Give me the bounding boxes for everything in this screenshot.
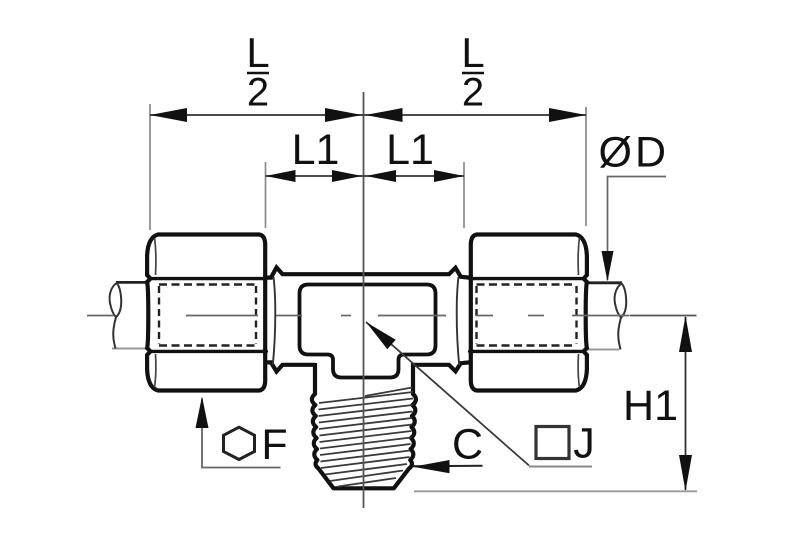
svg-text:F: F (261, 421, 287, 469)
svg-text:L1: L1 (292, 126, 340, 174)
svg-text:L1: L1 (386, 126, 434, 174)
label F with hexagon (196, 397, 288, 470)
threaded stud outline (312, 363, 416, 488)
label C with arrow (413, 421, 483, 474)
right nut (468, 235, 587, 391)
dimension H1 (414, 316, 697, 492)
right cone wavy line (457, 277, 459, 365)
dimension L/2 left (150, 29, 364, 230)
svg-text:2: 2 (462, 71, 484, 115)
horizontal centerline (87, 315, 629, 317)
svg-text:L: L (246, 29, 269, 76)
svg-text:H1: H1 (623, 382, 678, 430)
svg-text:J: J (573, 420, 595, 468)
svg-text:L: L (461, 29, 484, 76)
svg-text:2: 2 (247, 71, 269, 115)
right nut hidden bore (dashed) (477, 285, 577, 346)
dimension L1 right (364, 126, 464, 228)
left tube (110, 282, 152, 348)
label J with square and leader (366, 322, 595, 468)
left cone wavy line (273, 277, 275, 365)
dimension L/2 right (364, 29, 586, 226)
H1 top extension line (630, 315, 697, 317)
body bottom edges (267, 362, 470, 371)
left nut hidden bore (dashed) (159, 285, 256, 346)
vertical centerline (363, 92, 365, 508)
right tube (580, 283, 626, 350)
inner cavity (300, 285, 436, 378)
body top edge (267, 268, 470, 278)
label OD with leader arrow (599, 129, 670, 282)
dimension L1 left (266, 126, 364, 228)
svg-text:C: C (452, 421, 483, 469)
svg-text:ØD: ØD (599, 129, 670, 177)
left nut (147, 235, 268, 391)
thread lines (319, 388, 414, 487)
